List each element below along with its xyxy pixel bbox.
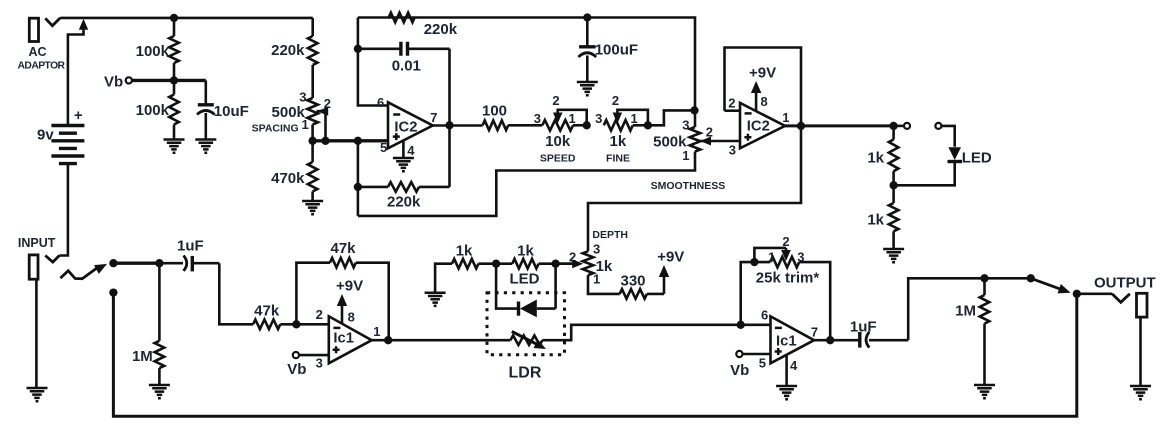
wire IC1a out to LDR [388, 339, 510, 342]
pin 3 smoothness [682, 118, 689, 133]
label 25k trim [756, 270, 820, 287]
potentiometer VR1 500k SPACING [307, 98, 318, 141]
capacitor C 10uF [197, 80, 215, 138]
wire to depth wiper [556, 262, 575, 265]
power +9V arrow IC2b [751, 81, 762, 111]
junction top rail to 100k [170, 14, 178, 22]
pin 2 label IC1a [316, 307, 323, 322]
wiper speed [553, 110, 587, 126]
op-amp IC2 section A [388, 102, 433, 148]
junction 220k bottom [354, 183, 362, 191]
svg-text:SPACING: SPACING [252, 123, 299, 135]
label 1k ind lower [867, 212, 884, 229]
ground below 100uF [577, 82, 598, 95]
svg-text:INPUT: INPUT [18, 236, 56, 250]
svg-text:1: 1 [373, 324, 380, 339]
svg-text:1k: 1k [610, 133, 627, 150]
op-amp IC2 section B [740, 103, 785, 148]
label 100 [482, 103, 507, 120]
wire output node [1077, 292, 1112, 295]
svg-text:1: 1 [782, 110, 789, 125]
battery negative lead to input jack switch [59, 164, 68, 256]
resistor R 1k drive [435, 259, 496, 293]
svg-text:8: 8 [348, 309, 355, 324]
power +9V arrow 330 [659, 265, 669, 294]
label 1uF output [850, 318, 877, 335]
pin 5 label IC1b [759, 356, 766, 371]
svg-text:6: 6 [377, 95, 384, 110]
svg-text:4: 4 [790, 358, 798, 373]
optocoupler dashed box [487, 293, 565, 355]
svg-text:LED: LED [510, 271, 540, 288]
resistor R 1M input [155, 263, 165, 384]
pin 3 depth [593, 242, 600, 257]
wire bypass bottom [113, 293, 1076, 417]
IC1a plus [333, 346, 340, 353]
label 100k upper [136, 43, 170, 60]
label IC1a [333, 330, 354, 346]
svg-text:220k: 220k [271, 42, 305, 59]
ground below 1k ind [883, 249, 904, 262]
junction 1M output [980, 274, 988, 282]
svg-text:10uF: 10uF [214, 103, 249, 120]
svg-text:DEPTH: DEPTH [592, 229, 628, 241]
svg-text:SPEED: SPEED [540, 153, 576, 165]
wire pin3 stub IC1a [299, 354, 329, 357]
label 9v [37, 127, 54, 144]
label Vb IC1b [730, 362, 749, 379]
svg-text:1: 1 [682, 148, 689, 163]
IC1a minus [333, 327, 340, 330]
ground below 1M output [974, 385, 995, 398]
svg-text:3: 3 [797, 250, 804, 265]
resistor R 1M output [980, 278, 990, 384]
label 220k top [424, 21, 458, 38]
pin 3 speed [534, 111, 541, 126]
junction IC1a output [384, 336, 392, 344]
junction spacing wiper [321, 137, 329, 145]
wiper 25k trim [754, 248, 790, 262]
svg-text:5: 5 [759, 356, 766, 371]
svg-text:1: 1 [301, 117, 308, 132]
label DEPTH [592, 229, 628, 241]
wire to LED switch [894, 125, 904, 128]
capacitor C 100uF [578, 18, 596, 82]
label 220k bottom [387, 194, 421, 211]
resistor R 1k ind upper [889, 126, 899, 185]
svg-text:LDR: LDR [509, 365, 542, 382]
resistor R 100 [483, 121, 543, 131]
svg-text:3: 3 [299, 90, 306, 105]
label 47k feedback [330, 240, 356, 257]
resistor R 100k lower [169, 80, 179, 138]
svg-text:7: 7 [811, 325, 818, 340]
pin 4 label [407, 143, 415, 158]
resistor R 47k input [253, 320, 296, 330]
wiper smoothness [700, 137, 740, 146]
ground below 470k [302, 201, 323, 214]
pin 2 label 25k [782, 234, 789, 249]
label 470k [271, 170, 305, 187]
label LED opto [510, 271, 540, 288]
junction 0.01 tap [354, 45, 362, 53]
svg-text:2: 2 [612, 93, 619, 108]
power +9V arrow IC1a [337, 294, 347, 324]
svg-text:AC: AC [28, 45, 46, 59]
op-amp IC1 section B [771, 316, 815, 363]
label 500k [272, 104, 306, 121]
pin 6 label [377, 95, 384, 110]
label +9V IC2b [749, 65, 776, 82]
node Vb IC1a pin3 [293, 352, 299, 358]
pin 3 fine [595, 111, 602, 126]
junction fine wiper [644, 121, 652, 129]
junction IC2b output [797, 122, 805, 130]
IC2a minus [393, 113, 400, 116]
battery positive lead and switch arm [68, 19, 88, 126]
op-amp IC1 section A [329, 316, 372, 363]
IC1b plus [775, 348, 782, 355]
pin 1 spacing [301, 117, 308, 132]
svg-text:0.01: 0.01 [392, 58, 421, 75]
svg-text:+9V: +9V [749, 65, 776, 82]
wire pin2 stub IC1a [296, 323, 328, 326]
ground 1k drive [425, 293, 446, 306]
pin 6 label IC1b [761, 308, 768, 323]
svg-text:2: 2 [782, 234, 789, 249]
node Vb IC1b pin5 [736, 351, 742, 357]
svg-text:3: 3 [729, 143, 736, 158]
label 330 [620, 273, 645, 290]
node LED switch contact A [904, 123, 910, 129]
ground output jack [1130, 386, 1151, 399]
capacitor C 1uF output [848, 332, 908, 348]
svg-text:Vb: Vb [104, 74, 123, 91]
wire IC1a output [372, 339, 389, 342]
svg-text:4: 4 [407, 143, 415, 158]
svg-text:Vb: Vb [287, 361, 306, 378]
pin 1 label IC1a [373, 324, 380, 339]
ground below 10uF [195, 140, 216, 153]
node switch contact upper [109, 259, 117, 267]
potentiometer VR 1k DEPTH [583, 251, 594, 275]
label FINE [606, 153, 630, 165]
resistor R 330 [588, 275, 664, 299]
capacitor C 0.01 [358, 42, 450, 56]
junction IC2a output [445, 121, 453, 129]
label LDR [509, 365, 542, 382]
junction spacing bottom [308, 137, 316, 145]
junction pin2 node [292, 320, 300, 328]
svg-text:47k: 47k [330, 240, 356, 257]
ground below 100k lower [164, 140, 185, 153]
svg-text:2: 2 [552, 93, 559, 108]
AC adaptor jack J3 [29, 18, 60, 42]
IC2b plus [744, 134, 751, 141]
pin 4 ground stem [402, 140, 405, 157]
label 1k depth [596, 258, 613, 275]
pin 1 speed [569, 111, 576, 126]
svg-text:8: 8 [761, 94, 768, 109]
junction 1M input [155, 259, 163, 267]
wire smoothness drop [694, 110, 697, 127]
pin 2 spacing [324, 96, 331, 111]
potentiometer VR 500k SMOOTHNESS [690, 127, 701, 151]
junction indicator [889, 122, 897, 130]
ground below 1M input [149, 385, 170, 398]
node LED switch contact B [935, 123, 941, 129]
junction led left [492, 260, 500, 268]
junction 25k left drop [737, 321, 745, 329]
LED indicator diode [894, 147, 962, 185]
label SPEED [540, 153, 576, 165]
svg-text:ADAPTOR: ADAPTOR [18, 61, 66, 72]
potentiometer VR 1k FINE [604, 120, 648, 131]
resistor R 100k upper [169, 18, 179, 81]
label 10k [545, 133, 571, 150]
label 1M output [955, 303, 976, 320]
svg-text:220k: 220k [424, 21, 458, 38]
label IC2a [394, 120, 417, 136]
resistor R 470k [308, 141, 318, 200]
ground IC2a pin4 [393, 158, 414, 171]
junction pin5 node [354, 137, 362, 145]
resistor R 220k feedback top [389, 13, 415, 23]
label 1k ind upper [867, 150, 884, 167]
pin 4 label IC1b [790, 358, 798, 373]
label 100uF [595, 42, 638, 59]
junction 100uF tap [583, 13, 591, 21]
wire LDR to IC1b pin6 [542, 325, 770, 340]
IC1b minus [775, 327, 782, 330]
label IC1b [776, 333, 797, 349]
svg-text:1k: 1k [517, 242, 534, 259]
ground IC1b pin4 [776, 386, 797, 399]
junction LED return [889, 181, 897, 189]
pin 1 depth [593, 272, 600, 287]
svg-text:100k: 100k [136, 102, 170, 119]
svg-text:1k: 1k [596, 258, 613, 275]
wire jog to smoothness [648, 110, 695, 125]
wiper spacing [317, 107, 329, 141]
node switch contact lower [109, 288, 117, 296]
pin 1 smoothness [682, 148, 689, 163]
wire IC2b feedback box [725, 48, 802, 124]
svg-text:FINE: FINE [606, 153, 630, 165]
wire oscillator top line [358, 18, 695, 111]
label SPACING [252, 123, 299, 135]
label LED indicator [962, 149, 992, 166]
pin 3 spacing [299, 90, 306, 105]
wire Vb feed [132, 79, 206, 82]
wire pin2 stub [725, 109, 741, 112]
LED opto diode [496, 264, 555, 318]
wire LFO feedback route [358, 152, 695, 216]
label 1M input [132, 348, 153, 365]
label 100k lower [136, 102, 170, 119]
svg-text:Vb: Vb [730, 362, 749, 379]
svg-text:220k: 220k [387, 194, 421, 211]
pin 2 label IC2b [728, 96, 735, 111]
pin 5 label [380, 140, 387, 155]
label +9V 330 [657, 249, 684, 266]
svg-text:10k: 10k [545, 133, 571, 150]
output jack J2 [1112, 293, 1147, 385]
svg-text:1M: 1M [955, 303, 976, 320]
svg-text:+9V: +9V [657, 249, 684, 266]
bypass switch arm input [60, 264, 107, 279]
resistor R 220k spacing [308, 18, 318, 98]
svg-text:7: 7 [430, 110, 437, 125]
label 1k drive [456, 242, 473, 259]
svg-text:100: 100 [482, 103, 507, 120]
wire depth feedback [588, 126, 801, 251]
battery B1 9v [51, 126, 84, 164]
svg-text:IC2: IC2 [747, 119, 770, 135]
label +9V IC1a [336, 278, 363, 295]
label 47k input [254, 303, 280, 320]
pin 1 fine [631, 111, 638, 126]
pin 1 label IC2b [782, 110, 789, 125]
wire IC1b output [814, 339, 848, 342]
LDR photoresistor [510, 332, 546, 350]
pin 8 label IC1a [348, 309, 355, 324]
pin 4 ground stem IC1b [785, 355, 788, 385]
wire pin5 stub IC1b [743, 353, 771, 356]
bypass switch arm output [1031, 278, 1071, 293]
svg-text:9v: 9v [37, 127, 54, 144]
junction smoothness top [690, 106, 698, 114]
wire output feedback vertical [448, 49, 451, 187]
svg-text:1: 1 [569, 111, 576, 126]
wire LED feed [941, 126, 954, 147]
svg-text:1k: 1k [867, 212, 884, 229]
node output switch pivot [1027, 274, 1035, 282]
label INPUT [18, 236, 56, 250]
wire IC2a output [433, 124, 483, 127]
potentiometer VR 10k SPEED [542, 120, 586, 131]
node pin6 vertical [358, 18, 388, 106]
label + [74, 107, 83, 124]
pin 3 label IC2b [729, 143, 736, 158]
label SMOOTHNESS [651, 180, 726, 192]
svg-text:1k: 1k [867, 150, 884, 167]
label 500k smoothness [653, 134, 687, 151]
svg-text:500k: 500k [272, 104, 306, 121]
svg-text:3: 3 [534, 111, 541, 126]
input jack J1 [29, 255, 59, 387]
pin 3 label 25k [797, 250, 804, 265]
label AC ADAPTOR [18, 45, 66, 72]
pin 2 depth [569, 250, 576, 265]
label 0.01 [392, 58, 421, 75]
pin 3 label IC1a [316, 356, 323, 371]
resistor R 220k feedback bottom [358, 182, 450, 192]
junction speed wiper [583, 121, 591, 129]
label 10uF [214, 103, 249, 120]
svg-text:SMOOTHNESS: SMOOTHNESS [651, 180, 726, 192]
IC2a plus [393, 133, 400, 140]
ground input jack [27, 388, 48, 401]
wire 1uF to 47k [219, 263, 253, 324]
wire spacing to IC2 pin5 [313, 139, 388, 142]
svg-text:1uF: 1uF [177, 238, 204, 255]
wire output riser [908, 278, 1031, 340]
label 220k spacing [271, 42, 305, 59]
svg-text:LED: LED [962, 149, 992, 166]
pin 2 speed [552, 93, 559, 108]
label 1k shunt [517, 242, 534, 259]
resistor R 1k shunt [496, 259, 555, 269]
svg-text:Ic1: Ic1 [776, 333, 797, 349]
svg-text:Ic1: Ic1 [333, 330, 354, 346]
junction IC1b output [826, 336, 834, 344]
svg-text:330: 330 [620, 273, 645, 290]
pin 1 label 25k [768, 250, 775, 265]
svg-text:1: 1 [631, 111, 638, 126]
label 1uF input [177, 238, 204, 255]
svg-text:100k: 100k [136, 43, 170, 60]
svg-text:OUTPUT: OUTPUT [1094, 274, 1156, 291]
resistor R 25k trim [741, 257, 831, 340]
svg-text:3: 3 [593, 242, 600, 257]
svg-text:3: 3 [316, 356, 323, 371]
node output [1073, 290, 1081, 298]
label Vb IC1a [287, 361, 306, 378]
resistor R 1k ind lower [889, 185, 899, 248]
svg-text:3: 3 [682, 118, 689, 133]
node Vb source [126, 77, 132, 83]
wiper depth [556, 259, 584, 268]
label IC2b [747, 119, 770, 135]
svg-text:1k: 1k [456, 242, 473, 259]
svg-text:2: 2 [728, 96, 735, 111]
label OUTPUT [1094, 274, 1156, 291]
pin 7 label [430, 110, 437, 125]
pin 8 label IC2b [761, 94, 768, 109]
wire top power rail [60, 17, 313, 20]
resistor R 47k feedback [296, 258, 388, 340]
node pin5 vertical [357, 141, 360, 216]
svg-text:47k: 47k [254, 303, 280, 320]
svg-text:+: + [74, 107, 83, 124]
label Vb [104, 74, 123, 91]
pin 7 label IC1b [811, 325, 818, 340]
svg-text:1uF: 1uF [850, 318, 877, 335]
wiper fine [613, 110, 648, 126]
junction led right [551, 260, 559, 268]
svg-text:1M: 1M [132, 348, 153, 365]
svg-text:3: 3 [595, 111, 602, 126]
svg-text:IC2: IC2 [394, 120, 417, 136]
label 1k fine [610, 133, 627, 150]
svg-text:+9V: +9V [336, 278, 363, 295]
svg-text:470k: 470k [271, 170, 305, 187]
junction Vb node [170, 76, 178, 84]
pin 2 smoothness [706, 125, 713, 140]
svg-text:5: 5 [380, 140, 387, 155]
IC2b minus [745, 112, 752, 115]
svg-text:25k trim*: 25k trim* [756, 270, 820, 287]
wire input node [113, 262, 159, 265]
svg-text:2: 2 [316, 307, 323, 322]
svg-text:100uF: 100uF [595, 42, 638, 59]
wire IC2b output [785, 124, 894, 127]
pin 2 fine [612, 93, 619, 108]
junction 25k left [750, 258, 758, 266]
svg-text:1: 1 [768, 250, 775, 265]
capacitor C 1uF input [159, 256, 219, 272]
